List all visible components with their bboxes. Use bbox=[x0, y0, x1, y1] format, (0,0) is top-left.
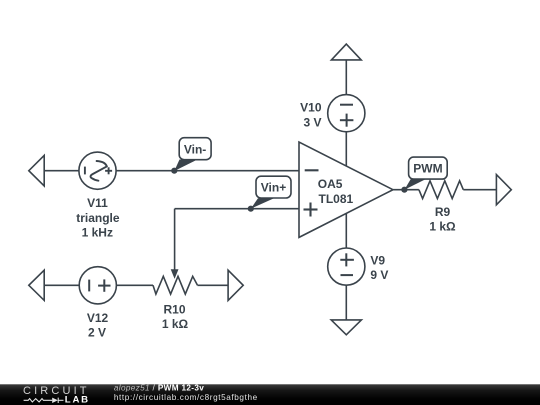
wire R10 to right flag bbox=[198, 284, 229, 286]
wire V12 to R10 bbox=[116, 284, 153, 286]
resistor R10 (potentiometer body) bbox=[153, 276, 198, 294]
svg-text:V9: V9 bbox=[370, 253, 385, 267]
voltage source V9 (9 V) bbox=[328, 248, 365, 285]
label OA5 TL081 bbox=[318, 177, 354, 206]
label R10 1 kOhm bbox=[162, 302, 189, 331]
flag terminal (right, output) bbox=[496, 175, 511, 205]
svg-text:alopez51 / PWM 12-3v: alopez51 / PWM 12-3v bbox=[114, 384, 204, 393]
svg-text:V10: V10 bbox=[300, 101, 322, 115]
svg-text:Vin-: Vin- bbox=[184, 143, 206, 157]
svg-text:2 V: 2 V bbox=[88, 326, 106, 340]
junction node Vin+ bbox=[248, 206, 254, 212]
wire Vin+ node to op-amp non-inverting input bbox=[175, 208, 299, 210]
net label PWM bbox=[404, 157, 447, 190]
voltage source V12 (2 V DC) bbox=[79, 267, 116, 304]
svg-text:R9: R9 bbox=[435, 205, 451, 219]
wire V10 to op-amp V+ pin bbox=[345, 132, 347, 166]
label V10 3 V bbox=[300, 101, 322, 130]
net label Vin- bbox=[174, 138, 211, 171]
svg-text:OA5: OA5 bbox=[318, 177, 343, 191]
flag terminal (left, V12 row) bbox=[29, 270, 44, 300]
label V11 triangle 1 kHz bbox=[76, 196, 120, 239]
label V9 9 V bbox=[370, 253, 388, 282]
net label Vin+ bbox=[251, 176, 291, 209]
svg-text:3 V: 3 V bbox=[303, 115, 321, 129]
svg-text:Vin+: Vin+ bbox=[261, 181, 286, 195]
svg-text:triangle: triangle bbox=[76, 211, 120, 225]
power flag (up arrow, V+) bbox=[331, 44, 361, 60]
wire V11 to op-amp inverting input bbox=[116, 170, 299, 172]
wiper arrowhead on R10 bbox=[171, 269, 179, 279]
wire up-flag to V10 bbox=[345, 60, 347, 95]
wire op-amp V- pin to V9 bbox=[345, 213, 347, 248]
svg-text:LAB: LAB bbox=[65, 394, 90, 405]
wire V9 to down flag bbox=[345, 285, 347, 320]
svg-text:TL081: TL081 bbox=[319, 192, 354, 206]
voltage source V10 (3 V) bbox=[328, 95, 365, 132]
flag terminal (right, R10 row) bbox=[228, 270, 243, 300]
label V12 2 V bbox=[87, 311, 109, 339]
op-amp OA5 TL081 bbox=[299, 142, 393, 237]
svg-text:R10: R10 bbox=[163, 302, 185, 316]
label R9 1 kOhm bbox=[429, 205, 456, 234]
junction node Vin- bbox=[171, 168, 177, 174]
wire op-amp output to R9 bbox=[393, 189, 419, 191]
svg-text:V12: V12 bbox=[87, 311, 109, 325]
resistor R9 bbox=[419, 181, 463, 199]
voltage source V11 (triangle 1 kHz) bbox=[79, 152, 116, 189]
footer bar bbox=[0, 384, 540, 405]
wire wiper: Vin+ node down to R10 arrow bbox=[174, 209, 176, 271]
power flag (down arrow, V-) bbox=[331, 320, 361, 335]
svg-text:V11: V11 bbox=[87, 196, 108, 210]
svg-text:1 kΩ: 1 kΩ bbox=[162, 317, 189, 331]
wire flag to V11 bbox=[44, 170, 79, 172]
CircuitLab logo: schematic squiggle bbox=[24, 398, 64, 403]
wire flag to V12 bbox=[44, 284, 79, 286]
wire R9 to right flag bbox=[463, 189, 496, 191]
junction node PWM bbox=[401, 187, 407, 193]
flag terminal (left, V11 row) bbox=[29, 155, 44, 186]
svg-text:http://circuitlab.com/c8rgt5af: http://circuitlab.com/c8rgt5afbgthe bbox=[114, 393, 258, 402]
svg-text:1 kΩ: 1 kΩ bbox=[429, 220, 456, 234]
svg-text:9 V: 9 V bbox=[370, 268, 388, 282]
svg-text:PWM: PWM bbox=[413, 162, 442, 176]
svg-text:1 kHz: 1 kHz bbox=[82, 225, 113, 239]
